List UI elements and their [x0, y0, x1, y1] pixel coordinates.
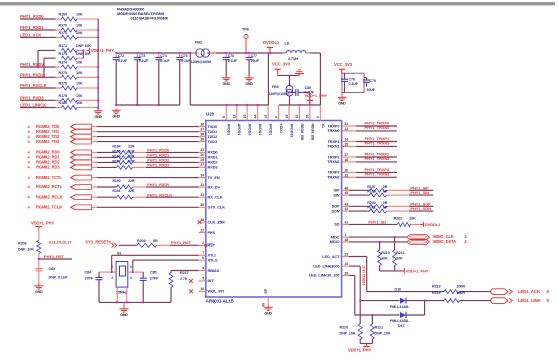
svg-text:AVDD1: AVDD1: [269, 124, 273, 136]
svg-text:VDD1: VDD1: [279, 124, 283, 133]
svg-text:DNP 10K: DNP 10K: [76, 44, 91, 48]
svg-text:22R: 22R: [128, 189, 135, 193]
svg-text:PPS: PPS: [208, 230, 216, 235]
svg-text:DNP_10K: DNP_10K: [18, 247, 34, 251]
svg-text:LED1_LINK: LED1_LINK: [518, 298, 541, 303]
svg-text:36: 36: [200, 122, 204, 126]
svg-text:C73: C73: [139, 54, 145, 58]
svg-text:U20: U20: [206, 111, 215, 116]
svg-text:12: 12: [345, 127, 349, 131]
svg-text:2: 2: [202, 241, 204, 245]
svg-text:VDD+1_PHY: VDD+1_PHY: [91, 48, 114, 53]
svg-text:PHY1_RXCLK: PHY1_RXCLK: [20, 83, 47, 88]
svg-text:8: 8: [222, 116, 226, 118]
svg-text:48: 48: [345, 238, 349, 242]
svg-text:27PF: 27PF: [85, 277, 94, 281]
svg-text:15: 15: [345, 142, 349, 146]
svg-text:33: 33: [200, 193, 204, 197]
svg-text:R179: R179: [59, 94, 67, 98]
svg-text:0R: 0R: [383, 206, 388, 210]
svg-text:0.1UF: 0.1UF: [228, 59, 238, 63]
svg-text:RGMII2_TCLK: RGMII2_TCLK: [36, 205, 62, 210]
svg-text:C77: C77: [251, 54, 257, 58]
svg-text:PMLL4148L: PMLL4148L: [390, 305, 410, 309]
svg-text:TRXN0: TRXN0: [327, 128, 339, 133]
svg-text:R173: R173: [59, 52, 67, 56]
svg-text:PHY1_SD: PHY1_SD: [368, 219, 386, 224]
svg-text:TRXN2: TRXN2: [327, 159, 340, 164]
svg-text:22R: 22R: [128, 159, 135, 163]
svg-text:AVDD1: AVDD1: [248, 124, 252, 136]
svg-text:R190: R190: [112, 179, 120, 183]
svg-text:C79: C79: [370, 79, 376, 83]
svg-text:X1: X1: [321, 124, 325, 128]
svg-text:MODE:0000 BASE=T,RGMII: MODE:0000 BASE=T,RGMII: [117, 12, 164, 16]
svg-text:C83: C83: [49, 267, 56, 271]
svg-text:DNP_0.1UF: DNP_0.1UF: [49, 275, 69, 279]
svg-text:RXD3: RXD3: [208, 165, 219, 170]
svg-text:R209: R209: [137, 239, 145, 243]
svg-text:R221: R221: [375, 326, 383, 330]
svg-text:23: 23: [345, 253, 349, 257]
svg-text:DNP_10K: DNP_10K: [375, 332, 391, 336]
svg-text:10K: 10K: [76, 94, 83, 98]
svg-text:40: 40: [200, 287, 204, 291]
svg-text:30: 30: [200, 153, 204, 157]
svg-text:45: 45: [345, 191, 349, 195]
svg-text:PHY1_RST: PHY1_RST: [171, 240, 192, 245]
svg-text:27: 27: [200, 163, 204, 167]
svg-text:SIN: SIN: [333, 192, 339, 197]
svg-text:10K: 10K: [76, 61, 83, 65]
svg-text:34: 34: [200, 173, 204, 177]
svg-text:AVDD1: AVDD1: [227, 124, 231, 136]
svg-text:29: 29: [200, 158, 204, 162]
svg-text:TP6: TP6: [242, 27, 250, 32]
svg-text:VDD+1_PHY: VDD+1_PHY: [406, 269, 429, 274]
svg-text:PHY1_RST: PHY1_RST: [44, 254, 65, 259]
svg-text:22: 22: [200, 228, 204, 232]
svg-text:11: 11: [345, 122, 349, 126]
svg-text:DVDDL1: DVDDL1: [425, 222, 441, 227]
svg-text:10K: 10K: [409, 217, 416, 221]
svg-text:7: 7: [202, 251, 204, 255]
svg-text:R172: R172: [59, 44, 67, 48]
svg-text:R171: R171: [59, 31, 67, 35]
svg-text:49: 49: [262, 303, 266, 307]
svg-text:1: 1: [111, 265, 113, 269]
svg-text:PHY1_RXD0: PHY1_RXD0: [20, 14, 44, 19]
svg-text:10UF: 10UF: [251, 59, 260, 63]
svg-text:18: 18: [345, 158, 349, 162]
svg-text:SYS_RESETn: SYS_RESETn: [85, 239, 111, 244]
svg-text:TXD3: TXD3: [208, 139, 218, 144]
svg-text:GTX_CLK: GTX_CLK: [208, 205, 226, 210]
svg-text:VCC_3V3: VCC_3V3: [334, 62, 353, 67]
svg-text:C84: C84: [85, 271, 93, 275]
svg-text:R202: R202: [394, 217, 402, 221]
svg-text:GND: GND: [112, 115, 120, 119]
svg-text:6: 6: [202, 256, 204, 260]
svg-text:0R: 0R: [153, 239, 158, 243]
svg-text:120R@100M: 120R@100M: [269, 92, 289, 96]
svg-text:G1: G1: [117, 251, 122, 255]
svg-text:4: 4: [130, 276, 132, 280]
svg-text:LED1_ACK: LED1_ACK: [518, 289, 541, 294]
svg-text:0.1UF: 0.1UF: [118, 59, 128, 63]
svg-text:RGMII2_TCTL: RGMII2_TCTL: [36, 175, 62, 180]
svg-text:C75: C75: [181, 54, 187, 58]
svg-text:0110 BASE=FX,RGMII: 0110 BASE=FX,RGMII: [131, 17, 168, 21]
svg-text:RGMII2_TD3: RGMII2_TD3: [36, 139, 60, 144]
svg-text:R208: R208: [18, 241, 26, 245]
svg-text:D16: D16: [395, 287, 402, 291]
svg-text:R191: R191: [112, 189, 120, 193]
svg-text:10K: 10K: [76, 101, 83, 105]
svg-text:R219: R219: [432, 291, 440, 295]
svg-text:TRXN1: TRXN1: [327, 144, 340, 149]
svg-text:PHY1_TRXN2: PHY1_TRXN2: [365, 156, 391, 161]
svg-text:10K: 10K: [76, 31, 83, 35]
svg-text:0R: 0R: [383, 190, 388, 194]
svg-text:17: 17: [345, 153, 349, 157]
svg-text:VCC_3V3: VCC_3V3: [272, 61, 291, 66]
svg-text:AVDD1: AVDD1: [258, 124, 262, 136]
svg-text:AVDD33: AVDD33: [289, 124, 293, 138]
svg-text:10K: 10K: [396, 257, 403, 261]
svg-text:41: 41: [345, 220, 349, 224]
svg-text:4,11,15,16,17: 4,11,15,16,17: [49, 239, 73, 244]
svg-text:R187: R187: [112, 159, 120, 163]
svg-text:22R: 22R: [128, 179, 135, 183]
svg-text:120R@100M: 120R@100M: [191, 60, 211, 64]
svg-text:0.1UF: 0.1UF: [160, 59, 170, 63]
svg-text:GND: GND: [222, 82, 230, 86]
svg-text:3: 3: [316, 116, 320, 118]
svg-text:32: 32: [200, 183, 204, 187]
svg-text:28: 28: [200, 218, 204, 222]
svg-text:R210: R210: [381, 251, 389, 255]
svg-text:EP: EP: [264, 288, 268, 293]
svg-text:R211: R211: [396, 251, 404, 255]
svg-text:XTLO: XTLO: [208, 257, 218, 262]
svg-text:10K: 10K: [76, 13, 83, 17]
svg-text:SD: SD: [334, 222, 339, 227]
svg-text:CLK_25M: CLK_25M: [208, 219, 225, 224]
svg-text:LED_ACT: LED_ACT: [322, 254, 340, 259]
svg-text:10: 10: [295, 115, 299, 119]
svg-text:38: 38: [200, 132, 204, 136]
svg-text:2.7K: 2.7K: [180, 277, 188, 281]
svg-text:10K: 10K: [76, 82, 83, 86]
svg-text:C72: C72: [118, 54, 124, 58]
svg-text:RBIAS: RBIAS: [208, 268, 220, 273]
svg-text:RX_DV: RX_DV: [208, 184, 221, 189]
svg-text:LED_LINK10_100: LED_LINK10_100: [309, 273, 340, 278]
svg-text:GND: GND: [94, 115, 102, 119]
svg-text:47: 47: [264, 115, 268, 119]
svg-text:C85: C85: [150, 271, 157, 275]
svg-text:RGMII2_RD3: RGMII2_RD3: [36, 165, 60, 170]
svg-text:RGMII2_RCLK: RGMII2_RCLK: [36, 194, 63, 199]
svg-text:R185: R185: [112, 149, 120, 153]
svg-text:VDD+1_PHY: VDD+1_PHY: [31, 221, 54, 226]
svg-text:31: 31: [200, 148, 204, 152]
svg-text:TRXN3: TRXN3: [327, 175, 340, 180]
svg-text:R180: R180: [59, 101, 67, 105]
svg-text:4: 4: [274, 116, 278, 118]
svg-text:GND: GND: [35, 290, 43, 294]
svg-text:22R: 22R: [128, 149, 135, 153]
svg-text:RGMII2_RCTL: RGMII2_RCTL: [36, 184, 63, 189]
svg-text:R186: R186: [112, 154, 120, 158]
svg-text:VDD+1_PHY: VDD+1_PHY: [348, 347, 371, 352]
svg-text:R169: R169: [59, 13, 67, 17]
svg-text:PMLL4148L: PMLL4148L: [390, 319, 410, 323]
svg-text:26: 26: [306, 115, 310, 119]
svg-text:R220: R220: [340, 326, 348, 330]
svg-text:R174: R174: [59, 61, 68, 65]
svg-text:FB0: FB0: [272, 85, 279, 89]
svg-text:R184: R184: [112, 144, 120, 148]
svg-text:MDIO: MDIO: [330, 239, 340, 244]
svg-text:14: 14: [345, 138, 349, 142]
svg-text:GND: GND: [264, 312, 272, 316]
svg-text:LED1_LINK10: LED1_LINK10: [20, 103, 47, 108]
svg-text:PHYADD=00000: PHYADD=00000: [117, 8, 144, 12]
svg-text:LED_LINK1000: LED_LINK1000: [313, 263, 339, 268]
svg-text:R217: R217: [180, 271, 188, 275]
svg-text:REG8_BB: REG8_BB: [300, 124, 304, 141]
svg-text:13: 13: [233, 115, 237, 119]
svg-text:20: 20: [345, 168, 349, 172]
svg-text:5: 5: [202, 277, 204, 281]
svg-text:0R: 0R: [383, 201, 388, 205]
svg-text:PHY1_RXDV: PHY1_RXDV: [20, 62, 44, 67]
svg-text:SON: SON: [331, 208, 339, 213]
svg-text:R175: R175: [59, 71, 67, 75]
svg-text:TX_EN: TX_EN: [208, 175, 220, 180]
svg-text:GND: GND: [120, 313, 128, 317]
svg-text:D17: D17: [398, 324, 405, 328]
svg-text:22R: 22R: [128, 144, 135, 148]
svg-text:37: 37: [200, 128, 204, 132]
svg-text:21: 21: [345, 173, 349, 177]
svg-text:R218: R218: [432, 285, 440, 289]
svg-text:DVDDL1: DVDDL1: [263, 40, 280, 45]
svg-text:1: 1: [345, 233, 347, 237]
svg-text:04/09/13 18:37: 04/09/13 18:37: [362, 265, 366, 285]
svg-text:PHY1_SIN: PHY1_SIN: [410, 190, 429, 195]
svg-text:PHY1_RXD2: PHY1_RXD2: [20, 72, 44, 77]
svg-text:WOL_INT: WOL_INT: [208, 289, 226, 294]
svg-text:200R: 200R: [457, 285, 466, 289]
svg-text:24: 24: [345, 262, 349, 266]
svg-text:PHY1_TRXN0: PHY1_TRXN0: [365, 125, 391, 130]
svg-text:42: 42: [345, 207, 349, 211]
svg-text:RX_CLK: RX_CLK: [208, 195, 223, 200]
svg-text:C78: C78: [349, 78, 355, 82]
svg-text:10K: 10K: [76, 71, 83, 75]
svg-text:LED1_ACK: LED1_ACK: [20, 32, 41, 37]
svg-text:MDIO_DATA: MDIO_DATA: [433, 239, 456, 244]
svg-text:GND: GND: [245, 82, 253, 86]
svg-text:INT: INT: [208, 278, 215, 283]
svg-text:2: 2: [111, 276, 113, 280]
svg-text:16: 16: [285, 115, 289, 119]
svg-text:C76: C76: [228, 54, 234, 58]
svg-text:R170: R170: [59, 24, 67, 28]
svg-text:26: 26: [345, 271, 349, 275]
svg-text:46: 46: [345, 186, 349, 190]
svg-text:10UF: 10UF: [367, 88, 376, 92]
svg-text:9: 9: [202, 266, 204, 270]
svg-text:0.1UF: 0.1UF: [139, 59, 149, 63]
svg-text:PHY1_TRXN3: PHY1_TRXN3: [365, 172, 391, 177]
svg-text:43: 43: [345, 202, 349, 206]
svg-text:22R: 22R: [128, 154, 135, 158]
svg-text:10K: 10K: [381, 257, 388, 261]
svg-text:PHY1_RXD3: PHY1_RXD3: [20, 95, 44, 100]
svg-text:VDD+1_PHY: VDD+1_PHY: [305, 93, 328, 98]
svg-text:PHY1_SON: PHY1_SON: [410, 206, 431, 211]
svg-text:0.1UF: 0.1UF: [349, 82, 359, 86]
svg-text:27PF: 27PF: [150, 277, 159, 281]
svg-text:200R: 200R: [457, 291, 466, 295]
svg-text:44: 44: [253, 115, 257, 119]
svg-text:PHY1_RXD1: PHY1_RXD1: [20, 25, 44, 30]
svg-text:35: 35: [200, 203, 204, 207]
svg-text:REG8_BB: REG8_BB: [310, 124, 314, 141]
svg-text:19: 19: [243, 115, 247, 119]
svg-text:10K: 10K: [76, 24, 83, 28]
svg-text:3: 3: [130, 265, 132, 269]
svg-text:PHY1_TRXN1: PHY1_TRXN1: [365, 141, 391, 146]
svg-text:0R: 0R: [383, 185, 388, 189]
svg-text:DNP_10K: DNP_10K: [340, 332, 356, 336]
svg-text:39: 39: [200, 137, 204, 141]
svg-text:C74: C74: [160, 54, 166, 58]
svg-text:AR8031-AL1B: AR8031-AL1B: [206, 299, 234, 304]
svg-text:FB2: FB2: [195, 40, 203, 45]
svg-text:GND: GND: [338, 102, 346, 106]
svg-text:R176: R176: [59, 82, 67, 86]
svg-text:AVDD1: AVDD1: [237, 124, 241, 136]
